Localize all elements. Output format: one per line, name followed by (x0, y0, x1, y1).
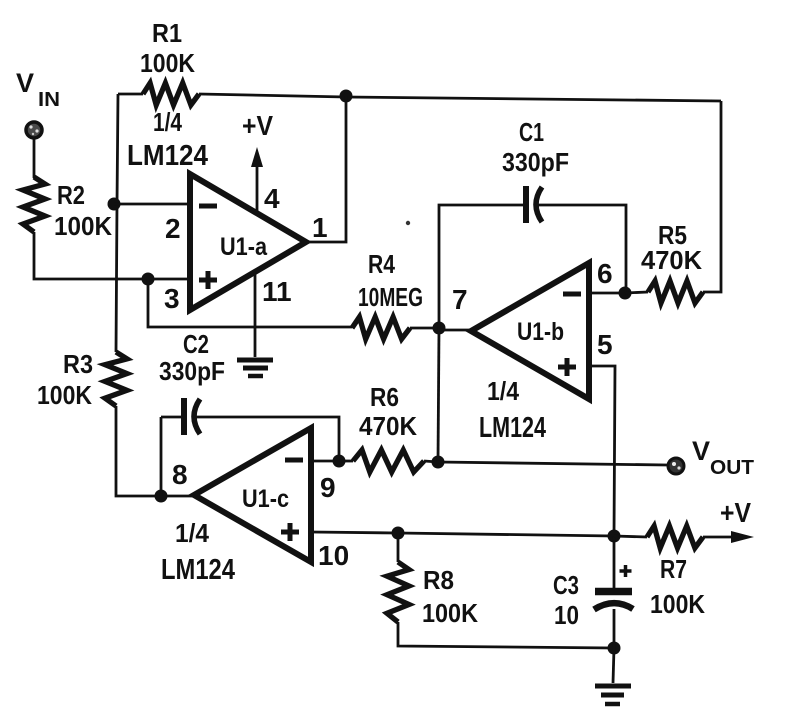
junction pin2 node (108, 198, 121, 211)
junction pin9 node (333, 455, 346, 468)
minus input mark U1-c (285, 458, 303, 463)
svg-text:V: V (692, 436, 710, 466)
svg-text:10: 10 (318, 540, 349, 571)
wire to ground (613, 648, 614, 683)
resistor R2 (23, 177, 45, 232)
junction R8 top (392, 527, 405, 540)
svg-text:2: 2 (165, 213, 181, 244)
svg-text:1: 1 (312, 212, 328, 243)
svg-text:C1: C1 (519, 117, 544, 147)
capacitor C3 (electrolytic) (594, 565, 633, 610)
svg-text:R6: R6 (370, 382, 399, 412)
label VIN (16, 68, 60, 111)
svg-text:7: 7 (452, 284, 468, 315)
node VIN terminal (26, 122, 42, 138)
+V arrow (pin 4) (251, 147, 263, 211)
svg-text:U1-c: U1-c (242, 485, 289, 513)
svg-text:IN: IN (38, 89, 60, 111)
wire pin9 node to R6 (339, 460, 353, 463)
junction bias node (608, 530, 621, 543)
svg-text:330pF: 330pF (502, 147, 569, 177)
wire R1 to U1-a output riser and to right (199, 94, 721, 101)
svg-text:LM124: LM124 (161, 554, 235, 586)
resistor R4 (352, 317, 410, 339)
resistor R8 (387, 562, 409, 622)
svg-text:R4: R4 (368, 249, 395, 279)
wire R3 bottom to U1-c output (116, 406, 194, 496)
svg-text:6: 6 (597, 258, 613, 289)
svg-text:1/4: 1/4 (153, 107, 182, 137)
wire pin2 stub (114, 203, 190, 206)
svg-text:R1: R1 (152, 18, 182, 48)
ground (bottom) (595, 686, 631, 704)
label R1 100K (140, 18, 195, 78)
svg-text:3: 3 (164, 283, 180, 314)
svg-text:470K: 470K (641, 245, 702, 275)
ground (U1-a pin 11) (237, 360, 273, 376)
stray mark (406, 221, 410, 225)
+V arrow (right supply) (703, 531, 754, 543)
svg-text:1/4: 1/4 (487, 376, 519, 406)
wire to C2 (161, 416, 184, 419)
svg-text:330pF: 330pF (159, 356, 225, 386)
resistor R3 (105, 352, 127, 406)
plus input mark U1-b (558, 358, 576, 376)
svg-text:R3: R3 (63, 349, 93, 379)
wire R5 to right riser up to top wire (703, 101, 721, 292)
resistor R7 (647, 526, 703, 548)
wire pin7 node to U1-b apex (439, 329, 471, 332)
junction pin3 node (142, 273, 155, 286)
svg-text:C2: C2 (183, 329, 209, 359)
wire pin 5 to bias node (589, 366, 615, 536)
wire C1 riser up (439, 205, 526, 328)
label 1/4 LM124 (U1-b) (479, 376, 546, 444)
resistor R1 (143, 83, 199, 105)
wire pin7 node down to VOUT line (438, 328, 439, 462)
svg-text:4: 4 (264, 183, 280, 214)
resistor R6 (353, 450, 424, 472)
wire C3 bottom (613, 609, 616, 648)
wire U1-a output to top (306, 96, 346, 242)
wire C2 right to pin9 node (196, 417, 339, 461)
junction bottom rail / C3 (608, 642, 621, 655)
label R2 100K (54, 180, 112, 241)
svg-text:5: 5 (597, 329, 613, 360)
junction U1-b output node (pin 7) (433, 322, 446, 335)
svg-text:+V: +V (242, 110, 273, 141)
svg-text:100K: 100K (37, 380, 92, 410)
wire C2 left riser (160, 417, 163, 496)
wire top to R1 (118, 93, 143, 96)
wire bias node to C3 (613, 536, 616, 588)
wire pin 9 stub (311, 460, 339, 463)
op-amp U1-c (194, 428, 311, 562)
svg-text:10MEG: 10MEG (358, 282, 423, 312)
wire pin 10 line to bias node (311, 532, 614, 536)
wire R2 bottom to pin3 line (34, 232, 190, 279)
wire pin3 node down to R4 branch (148, 279, 352, 327)
wire R8 bottom to bottom rail (398, 622, 614, 648)
label R3 100K (37, 349, 93, 410)
label R5 470K (641, 220, 702, 275)
junction output U1-a top (340, 90, 353, 103)
wire pin 11 to ground (254, 272, 257, 357)
svg-text:9: 9 (320, 472, 336, 503)
svg-text:LM124: LM124 (479, 412, 546, 444)
op-amp U1-b (471, 263, 589, 399)
label R8 100K (422, 565, 478, 628)
wire top feedback R1 line left riser (116, 94, 118, 352)
wire C1 right to pin6 node (538, 205, 626, 293)
label C2 330pF (159, 329, 225, 386)
svg-text:U1-b: U1-b (517, 318, 564, 346)
svg-text:100K: 100K (54, 211, 112, 241)
wire pin6 to R5 (625, 292, 648, 293)
label 1/4 LM124 (U1-a) (127, 107, 208, 172)
label R7 100K (650, 554, 705, 619)
svg-text:100K: 100K (140, 48, 195, 78)
label C1 330pF (502, 117, 569, 177)
minus input mark U1-b (563, 292, 581, 297)
wire pin 6 stub (589, 292, 625, 295)
wire R6 to VOUT riser (424, 461, 438, 462)
svg-text:470K: 470K (359, 411, 417, 441)
svg-text:11: 11 (262, 276, 292, 307)
junction pin6 node (619, 287, 632, 300)
wire R8 top stub (397, 533, 400, 562)
plus input mark U1-a (199, 271, 217, 289)
svg-text:R7: R7 (660, 554, 687, 584)
minus input mark U1-a (199, 204, 217, 209)
svg-text:100K: 100K (650, 589, 705, 619)
plus input mark U1-c (281, 523, 299, 541)
label R4 10MEG (358, 249, 423, 312)
svg-text:V: V (16, 68, 34, 98)
junction VOUT node (432, 456, 445, 469)
svg-text:+V: +V (720, 497, 751, 528)
wire bias node to R7 (614, 536, 647, 537)
svg-text:R2: R2 (57, 180, 85, 210)
label C3 10 (553, 570, 579, 630)
resistor R5 (648, 281, 703, 303)
svg-text:1/4: 1/4 (175, 518, 209, 548)
svg-text:U1-a: U1-a (220, 233, 268, 261)
svg-text:10: 10 (554, 600, 579, 630)
wire VOUT line (438, 462, 667, 465)
junction C2 left node (155, 490, 168, 503)
node VOUT terminal (668, 458, 684, 474)
wire R4 to U1-b output node (410, 327, 439, 330)
svg-text:LM124: LM124 (127, 140, 208, 172)
label 1/4 LM124 (U1-c) (161, 518, 235, 586)
label VOUT (692, 436, 754, 479)
capacitor C2 (184, 398, 200, 435)
svg-text:OUT: OUT (710, 457, 754, 479)
capacitor C1 (526, 186, 542, 223)
wire VIN to R2 (33, 137, 36, 178)
label R6 470K (359, 382, 417, 441)
svg-text:100K: 100K (422, 598, 478, 628)
svg-text:R8: R8 (423, 565, 454, 595)
op-amp U1-a (190, 174, 306, 310)
svg-text:8: 8 (172, 459, 188, 490)
svg-text:C3: C3 (553, 570, 579, 600)
